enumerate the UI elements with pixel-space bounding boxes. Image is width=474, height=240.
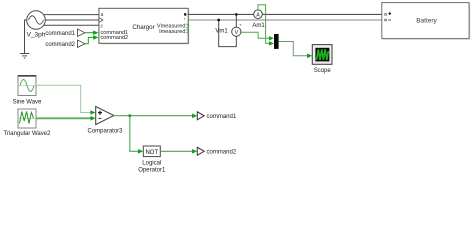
svg-text:+: +: [239, 22, 242, 27]
svg-text:+: +: [184, 17, 187, 22]
svg-text:Triangular Wave2: Triangular Wave2: [4, 131, 52, 137]
svg-text:Sine Wave: Sine Wave: [13, 100, 42, 106]
svg-text:command1: command1: [207, 114, 237, 120]
svg-text:Logical: Logical: [142, 161, 161, 167]
svg-text:Chargor: Chargor: [132, 24, 154, 31]
svg-text:V: V: [235, 30, 239, 36]
svg-text:Scope: Scope: [314, 68, 332, 74]
svg-text:Battery: Battery: [416, 18, 437, 25]
svg-text:command2: command2: [207, 150, 237, 156]
svg-text:command1: command1: [45, 31, 75, 37]
svg-text:NOT: NOT: [145, 150, 158, 156]
svg-text:Am1: Am1: [252, 23, 265, 29]
svg-text:Operator1: Operator1: [138, 168, 166, 174]
svg-text:Vm1: Vm1: [215, 29, 228, 35]
svg-text:command2: command2: [45, 42, 75, 48]
svg-text:Imeasured: Imeasured: [159, 29, 185, 35]
svg-text:Comparator3: Comparator3: [87, 128, 123, 134]
svg-text:a: a: [101, 12, 104, 18]
svg-text:V_3ph: V_3ph: [27, 32, 46, 39]
svg-text:command2: command2: [101, 35, 129, 41]
